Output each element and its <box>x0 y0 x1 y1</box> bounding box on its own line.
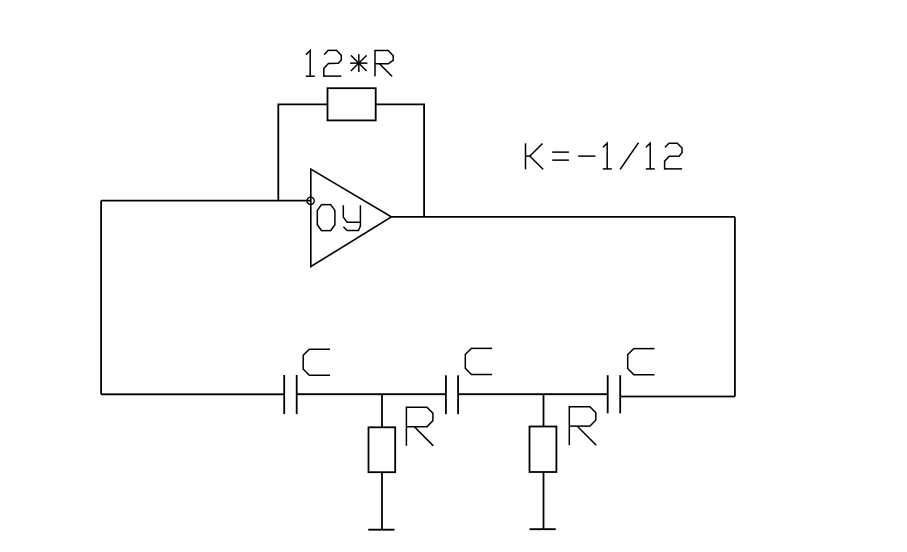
resistor R1 body <box>369 427 396 472</box>
wire: right vertical down to RC ladder <box>734 217 736 397</box>
wire: bottom right segment (C3 to right vertical) <box>620 396 735 398</box>
label C (C1) <box>303 349 330 375</box>
wire: R1 to ground <box>381 472 383 530</box>
op-amp inverting input bubble <box>307 197 314 204</box>
wire: feedback left vertical (inverting input to 12*R) <box>278 104 327 200</box>
resistor R2 body <box>530 427 557 473</box>
wire: C1 to C2 (junction node at R1) <box>297 393 446 395</box>
ground (R2) <box>530 528 556 530</box>
op-amp U1 (ОУ) triangle <box>311 169 392 267</box>
label K=-1/12 <box>526 143 683 170</box>
wire: bottom left segment (loop to C1) <box>101 393 284 395</box>
op-amp label ОУ <box>317 205 360 231</box>
wire: junction to resistor R1 <box>381 394 383 427</box>
wire: R2 to ground <box>543 472 545 529</box>
capacitor C2 plates <box>445 375 447 414</box>
label R (R1) <box>406 407 433 446</box>
wire: C2 to C3 (junction node at R2) <box>458 393 608 395</box>
wire: feedback right vertical (12*R to output) <box>376 104 424 216</box>
wire: input net to inverting input of op-amp <box>101 200 311 202</box>
wire: left vertical of outer loop <box>100 201 102 395</box>
capacitor C1 plates <box>283 375 285 414</box>
value label 12*R (feedback resistor) <box>306 50 393 76</box>
wire: op-amp output to right side <box>391 216 735 218</box>
ground (R1) <box>368 529 394 531</box>
wire: junction to resistor R2 <box>543 394 545 426</box>
label R (R2) <box>569 407 596 446</box>
resistor 12*R (feedback) body <box>328 88 376 120</box>
label C (C3) <box>628 349 655 375</box>
capacitor C3 plates <box>607 375 609 413</box>
label C (C2) <box>465 348 492 374</box>
